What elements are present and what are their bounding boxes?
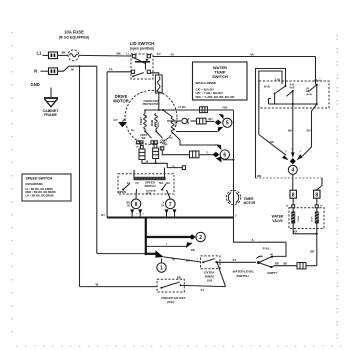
wire box to terminal 8 — [135, 189, 138, 199]
svg-text:SWITCH: SWITCH — [236, 274, 249, 278]
node aux tap — [162, 109, 164, 111]
motor lead connector 1 — [139, 145, 145, 159]
wire vertical W feeder — [79, 66, 81, 286]
wire faucet to diagonal — [181, 285, 226, 286]
wire connector to fuse — [58, 54, 68, 56]
wire rinse to water level switch — [216, 261, 256, 263]
svg-text:BK: BK — [306, 91, 310, 93]
finger faucet dashed box — [157, 279, 184, 292]
dashed link line OR — [256, 177, 323, 179]
speed switch dashed box — [118, 174, 174, 194]
svg-text:OR: OR — [135, 144, 139, 146]
drive motor M1 dashed circle — [125, 91, 177, 145]
svg-text:2: 2 — [199, 235, 202, 241]
svg-text:W: W — [96, 282, 99, 286]
svg-text:Y: Y — [206, 150, 208, 154]
svg-text:BR: BR — [310, 249, 314, 253]
GY bus wire — [107, 217, 233, 219]
wire riser W1 top jog — [256, 69, 286, 179]
speed switch legend box — [22, 174, 71, 201]
wire water level full drop — [273, 242, 286, 256]
stub into speed switch bar left — [133, 170, 135, 177]
arrow OR into diamond — [282, 155, 289, 160]
timer terminal 4 — [288, 165, 297, 174]
svg-text:GY: GY — [157, 52, 161, 56]
aux winding — [163, 110, 178, 133]
wire N to connector — [41, 70, 49, 72]
wire vertical N feeder — [96, 66, 98, 253]
wire drop to timer contact box — [315, 57, 317, 85]
connector on terminal 6 feed — [190, 151, 200, 158]
water temp switch box — [193, 62, 248, 100]
capacitor line — [167, 120, 181, 122]
wire faucet branch diagonal — [217, 262, 226, 286]
wire motor output line to timer vertical — [144, 109, 234, 111]
water valve dashed box — [289, 208, 324, 229]
svg-text:GY: GY — [233, 258, 237, 262]
wire connector to valve drop — [306, 265, 317, 267]
arrow top into terminal 6 — [215, 144, 221, 150]
svg-text:BR: BR — [275, 261, 279, 265]
svg-text:AUX: AUX — [175, 122, 178, 127]
svg-text:8: 8 — [135, 202, 138, 208]
wire L1 to connector — [43, 54, 49, 56]
svg-text:WASH+RINSE: WASH+RINSE — [196, 81, 217, 85]
timer terminal 8 — [131, 199, 141, 209]
svg-text:VALVE: VALVE — [272, 219, 283, 223]
timer terminal 7 — [166, 199, 176, 209]
svg-text:8: 8 — [315, 193, 318, 199]
water level switch — [257, 256, 274, 269]
terminal 8 drop arrows — [130, 209, 142, 217]
svg-text:1: 1 — [160, 266, 163, 272]
svg-text:MOTOR: MOTOR — [244, 201, 257, 205]
arrow BK into diamond — [291, 152, 295, 157]
arrow BU into diamond — [297, 154, 303, 160]
wire connector to terminal 6 — [199, 154, 213, 156]
wire BU drop diagonal to arrow — [303, 104, 317, 156]
speed switch pin bar — [134, 177, 166, 180]
connector on motor line — [200, 107, 208, 113]
wire coil bottoms join — [293, 224, 317, 234]
svg-text:SPEED SWITCH: SPEED SWITCH — [26, 177, 53, 181]
svg-text:7: 7 — [169, 202, 172, 208]
svg-text:5: 5 — [226, 121, 229, 127]
svg-text:LT BU: LT BU — [178, 105, 186, 109]
svg-text:AGITATE/: AGITATE/ — [146, 190, 156, 193]
svg-text:M4: M4 — [159, 181, 163, 185]
svg-text:(D): (D) — [306, 88, 309, 90]
connector on L1 line — [49, 52, 58, 59]
svg-text:W: W — [71, 68, 74, 72]
svg-text:BK: BK — [146, 114, 148, 118]
svg-text:BU: BU — [307, 128, 311, 132]
svg-text:HOT: HOT — [311, 216, 313, 221]
lid switch S1 dashed box — [131, 54, 153, 79]
finger faucet switch — [160, 282, 181, 289]
valve connector right — [314, 190, 320, 198]
wire valve return drop — [316, 234, 318, 266]
wire box to terminal 7 — [167, 190, 171, 199]
svg-text:SWITCH: SWITCH — [144, 184, 155, 188]
timer terminal 6 — [220, 150, 229, 159]
svg-text:GY: GY — [201, 288, 205, 292]
node BK tap — [292, 103, 294, 105]
BR feed line to terminal 2 — [146, 242, 195, 251]
wire bus corner down to water level feed — [234, 218, 287, 243]
svg-text:BR: BR — [191, 248, 195, 252]
svg-text:BU: BU — [131, 130, 135, 132]
wire terminal 4 to valve connector — [292, 174, 294, 190]
timer terminal 2 — [196, 232, 205, 241]
svg-text:40A: 40A — [293, 231, 298, 234]
speed switch lever left — [122, 184, 129, 191]
svg-text:W+B: W+B — [264, 86, 270, 89]
timer contact common bar — [269, 103, 317, 105]
wire lid switch lower pin to left drop — [107, 71, 131, 73]
ground symbol cabinet frame — [44, 88, 58, 107]
svg-text:LO = BK-BK, BK-OR/BK: LO = BK-BK, BK-OR/BK — [26, 195, 54, 198]
overload protector — [155, 75, 162, 93]
wire fuse to lid switch — [79, 54, 131, 57]
wire OR diagonal from W2 riser — [259, 135, 286, 156]
node coil join — [316, 233, 318, 235]
svg-text:H+B: H+B — [290, 86, 295, 89]
junction diamond above terminal 4 — [290, 158, 296, 164]
svg-text:7A: 7A — [172, 257, 175, 261]
wire to extra rinse switch — [164, 257, 201, 262]
page border dotted bottom — [16, 345, 341, 346]
svg-text:SPIN: SPIN — [146, 193, 152, 195]
wire lid switch output to overload protector — [150, 73, 158, 75]
junction node — [79, 65, 81, 67]
svg-text:COLD: COLD — [298, 215, 300, 222]
svg-text:C+B: C+B — [275, 79, 280, 82]
svg-text:(S/O): (S/O) — [167, 300, 174, 304]
centrifugal switch 2 — [155, 131, 167, 146]
svg-text:W/C = Y+OR, BU-OR, BU-OR: W/C = Y+OR, BU-OR, BU-OR — [196, 95, 236, 99]
extra rinse dashed box — [201, 256, 221, 269]
svg-text:FULL: FULL — [263, 246, 271, 250]
wire vertical drop from lid switch to GY bus — [106, 72, 108, 218]
svg-text:(IF SO EQUIPPED): (IF SO EQUIPPED) — [59, 36, 90, 40]
wire connectors to valve pins — [293, 198, 317, 205]
svg-text:L1: L1 — [37, 50, 43, 55]
svg-text:8: 8 — [292, 193, 295, 199]
svg-text:4A: 4A — [171, 52, 174, 56]
wire aux to terminal 6 top feed — [173, 133, 216, 145]
svg-text:GY: GY — [114, 118, 118, 122]
motor lead pins — [137, 141, 158, 146]
svg-text:50Y: 50Y — [164, 144, 169, 147]
wire BK drop to arrow — [292, 104, 294, 153]
svg-text:RED: RED — [158, 122, 160, 127]
wire water level to return connector — [272, 266, 298, 267]
timer motor TM dashed circle — [226, 190, 240, 204]
svg-text:FRAME: FRAME — [44, 113, 57, 117]
svg-text:PROTECTOR: PROTECTOR — [143, 102, 160, 106]
wire left contact drop — [269, 99, 272, 105]
wire protector to main node — [158, 93, 160, 110]
wire to terminal 5 — [206, 120, 215, 122]
svg-text:BK: BK — [288, 128, 292, 132]
connector on return line — [297, 263, 306, 269]
arrow diamond into terminal 2 — [189, 234, 196, 240]
centrifugal switch 1 — [140, 131, 151, 141]
svg-text:M1: M1 — [166, 181, 170, 185]
connector on capacitor line — [197, 118, 207, 124]
heavy branch vertical — [145, 218, 147, 255]
timer terminal 1 — [157, 258, 166, 272]
node motor main — [158, 109, 160, 111]
svg-text:Y50: Y50 — [222, 105, 228, 109]
terminal 7 drop arrows — [165, 209, 177, 217]
wire lid switch output right (GY) — [153, 56, 316, 58]
motor ground arrow GY — [114, 118, 128, 128]
svg-text:MAIN: MAIN — [151, 120, 154, 126]
wire timer vertical — [233, 110, 235, 218]
svg-text:N: N — [34, 69, 37, 74]
wire capacitor to connector — [191, 120, 197, 122]
svg-text:S/O: S/O — [207, 279, 213, 283]
svg-text:BU: BU — [186, 258, 190, 262]
timer water-valve contacts dashed box — [259, 81, 329, 108]
valve connector left — [290, 190, 296, 198]
start winding — [140, 110, 147, 131]
wire W line to finger faucet — [80, 286, 158, 288]
wire lead1 staircase to M pins — [142, 160, 182, 168]
contact switch right — [308, 84, 318, 104]
speed switch lever right — [161, 184, 166, 191]
pin and riser to terminal 6 mid feed — [161, 147, 190, 155]
node BU tap — [316, 103, 318, 105]
svg-text:7A: 7A — [109, 68, 113, 72]
wire link drop to right valve connector — [316, 178, 322, 190]
hot solenoid coil — [311, 208, 318, 224]
svg-text:10A FUSE: 10A FUSE — [64, 29, 84, 34]
svg-text:MOTOR: MOTOR — [113, 99, 129, 104]
svg-text:(H+B): (H+B) — [306, 94, 312, 96]
arrow line from lower winding into terminal 5 — [176, 127, 223, 133]
valve pins — [286, 205, 322, 208]
heavy wire junction to arrow — [146, 253, 156, 255]
svg-text:BU: BU — [209, 117, 213, 121]
page border dotted left — [12, 32, 13, 332]
wire lead2 drop — [155, 159, 157, 164]
svg-text:EMPTY: EMPTY — [268, 271, 278, 275]
heavy branch to terminal 2 — [146, 236, 190, 238]
svg-text:SW: SW — [141, 137, 146, 140]
capacitor C1 — [182, 118, 189, 123]
connector on N line — [49, 68, 58, 75]
svg-text:(WASH/RINSE): (WASH/RINSE) — [26, 183, 44, 186]
lid switch internals — [131, 55, 150, 78]
motor lead connector 2 — [153, 144, 159, 158]
svg-text:START: START — [140, 117, 143, 125]
svg-text:OR: OR — [257, 174, 261, 178]
contact switch left — [274, 85, 287, 104]
svg-text:GY: GY — [101, 213, 105, 217]
svg-text:OR: OR — [270, 140, 274, 144]
node heavy junction — [144, 252, 147, 255]
svg-text:BK: BK — [284, 261, 288, 265]
main winding — [151, 114, 158, 132]
arrow from top into terminal 5 — [218, 114, 223, 119]
svg-text:SWITCH: SWITCH — [212, 74, 228, 79]
arrow diamond into terminal 6 — [213, 152, 220, 158]
fuse F1 (dashed circle with element) — [68, 50, 79, 61]
big arrow to rinse line — [155, 250, 163, 257]
svg-text:2B: 2B — [270, 254, 273, 256]
svg-text:LID SWITCH: LID SWITCH — [130, 41, 154, 46]
page border dotted right (green/pink pairs) — [337, 35, 338, 339]
svg-text:OPEN: OPEN — [119, 190, 126, 194]
wire riser W2 top jog — [259, 71, 282, 135]
svg-text:(open position): (open position) — [130, 47, 154, 51]
svg-text:GND: GND — [31, 82, 40, 87]
wire N rises to feeder — [58, 66, 97, 71]
svg-text:6: 6 — [223, 153, 226, 159]
svg-text:BR: BR — [177, 275, 181, 279]
svg-text:BK: BK — [62, 51, 66, 55]
cold solenoid coil — [291, 208, 300, 224]
svg-text:BR+Y: BR+Y — [314, 80, 321, 83]
svg-text:4: 4 — [291, 168, 294, 174]
contact switch middle — [286, 90, 294, 104]
arrow diamond into terminal 5 — [215, 120, 222, 126]
timer terminal 5 — [223, 118, 232, 127]
arrow bottom into terminal 6 — [216, 157, 235, 163]
stub into speed switch bar right — [164, 168, 166, 177]
wire N feeder joins junction — [97, 253, 146, 255]
svg-text:RED: RED — [168, 138, 173, 140]
node lead2 join — [155, 162, 157, 164]
extra rinse switch — [202, 259, 217, 264]
terminal stub box — [182, 166, 185, 170]
